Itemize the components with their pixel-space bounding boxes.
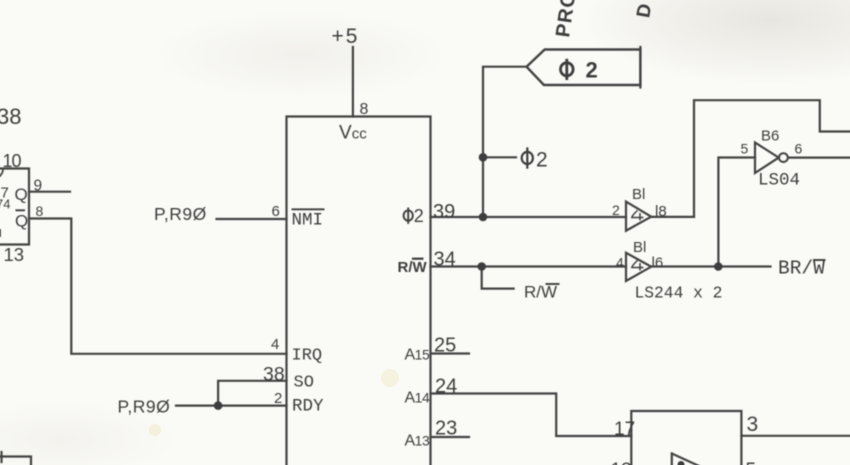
svg-text:A14: A14 bbox=[405, 390, 430, 407]
svg-text:Q: Q bbox=[15, 212, 28, 231]
svg-text:P,R9Ø: P,R9Ø bbox=[154, 204, 207, 224]
svg-text:R/W: R/W bbox=[524, 283, 557, 302]
svg-text:2: 2 bbox=[536, 149, 548, 172]
svg-text:39: 39 bbox=[433, 201, 455, 223]
svg-text:34: 34 bbox=[434, 249, 456, 271]
svg-text:23: 23 bbox=[435, 418, 457, 440]
svg-text:P,R9Ø: P,R9Ø bbox=[118, 397, 171, 417]
svg-text:A13: A13 bbox=[405, 433, 430, 450]
svg-text:2: 2 bbox=[414, 206, 424, 226]
svg-text:6: 6 bbox=[795, 141, 803, 157]
svg-text:5: 5 bbox=[741, 141, 749, 157]
svg-text:Q: Q bbox=[15, 185, 28, 204]
svg-text:3: 3 bbox=[747, 413, 759, 436]
svg-text:17: 17 bbox=[614, 419, 635, 440]
svg-text:+5: +5 bbox=[332, 25, 360, 48]
svg-text:2: 2 bbox=[586, 58, 598, 83]
svg-text:9: 9 bbox=[34, 178, 43, 195]
svg-text:6: 6 bbox=[272, 203, 280, 220]
svg-text:LS244 x 2: LS244 x 2 bbox=[635, 284, 723, 303]
svg-text:4: 4 bbox=[271, 336, 279, 353]
svg-text:4: 4 bbox=[616, 255, 624, 271]
svg-text:SO: SO bbox=[294, 374, 314, 393]
svg-text:8: 8 bbox=[36, 203, 44, 219]
svg-text:l8: l8 bbox=[655, 203, 667, 220]
svg-text:10: 10 bbox=[3, 151, 22, 171]
svg-text:BR/W: BR/W bbox=[778, 258, 825, 280]
svg-text:Bl: Bl bbox=[633, 239, 646, 256]
svg-text:38: 38 bbox=[0, 104, 21, 129]
svg-text:2: 2 bbox=[274, 390, 282, 407]
svg-text:24: 24 bbox=[435, 376, 457, 398]
svg-text:IRQ: IRQ bbox=[292, 347, 323, 366]
svg-text:38: 38 bbox=[263, 364, 285, 386]
svg-text:25: 25 bbox=[434, 335, 456, 357]
svg-text:8: 8 bbox=[360, 101, 369, 118]
svg-text:LS04: LS04 bbox=[758, 171, 800, 191]
svg-text:B6: B6 bbox=[761, 128, 779, 145]
svg-text:NMI: NMI bbox=[292, 211, 324, 231]
svg-text:13: 13 bbox=[611, 460, 632, 465]
svg-text:Vcc: Vcc bbox=[339, 123, 367, 144]
svg-text:13: 13 bbox=[4, 244, 25, 265]
svg-text:2: 2 bbox=[612, 202, 620, 218]
svg-text:A15: A15 bbox=[405, 347, 430, 364]
svg-text:Bl: Bl bbox=[632, 186, 645, 203]
svg-text:R/W: R/W bbox=[398, 259, 428, 276]
svg-text:l6: l6 bbox=[652, 255, 664, 272]
svg-text:74: 74 bbox=[0, 197, 10, 212]
svg-text:5: 5 bbox=[746, 460, 757, 465]
svg-text:RDY: RDY bbox=[292, 397, 324, 417]
